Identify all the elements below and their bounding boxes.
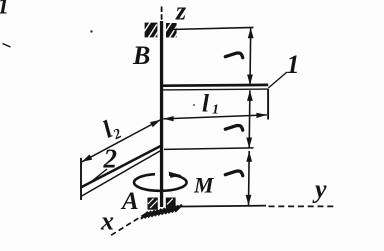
- label l (middle) rotated: [225, 125, 242, 130]
- dimension line l (middle segment): [248, 90, 251, 148]
- moment M arc: [134, 174, 187, 191]
- leader for label 2: [90, 169, 107, 183]
- z axis dashed line: [161, 7, 163, 22]
- speck: [90, 30, 92, 32]
- svg-text:1: 1: [287, 50, 300, 79]
- bar 1 top line: [163, 84, 268, 87]
- svg-text:2: 2: [103, 144, 118, 174]
- svg-text:y: y: [312, 175, 327, 204]
- support B hatch left: [144, 22, 158, 38]
- dimension line l (bottom segment): [248, 151, 251, 205]
- support A right foot: [166, 198, 176, 210]
- svg-text:x: x: [100, 207, 114, 236]
- vertical bar AB: [160, 21, 163, 207]
- bottom line to y axis: [173, 206, 266, 207]
- top extension line: [171, 27, 254, 29]
- junction extension line: [164, 148, 254, 150]
- support A ground hatching: [141, 205, 182, 219]
- bar 1 bottom line: [163, 88, 268, 91]
- support A left foot: [148, 198, 158, 210]
- svg-text:B: B: [132, 41, 150, 70]
- bar 2 upper line: [81, 145, 162, 187]
- dimension line l2: [82, 120, 161, 162]
- stray mark: [3, 44, 11, 48]
- speck: [193, 104, 195, 106]
- moment M arrowhead: [169, 172, 182, 178]
- bar 2 end extension line: [80, 158, 82, 200]
- svg-text:l: l: [202, 91, 209, 118]
- y axis dashed line: [269, 205, 337, 207]
- svg-text:1: 1: [0, 0, 9, 19]
- bar 1 end cap: [267, 89, 269, 120]
- x axis dashed line: [109, 214, 146, 237]
- svg-text:M: M: [193, 173, 215, 198]
- support B hatch right: [166, 22, 178, 38]
- dimension line l (top segment): [249, 28, 252, 85]
- label l2: [99, 113, 124, 146]
- label l (top) rotated: [225, 53, 242, 58]
- svg-text:A: A: [120, 188, 139, 215]
- bar 2 lower line: [81, 151, 161, 197]
- label l (bottom) rotated: [225, 171, 242, 176]
- dimension line l1: [163, 115, 266, 119]
- svg-text:z: z: [175, 0, 187, 26]
- svg-text:1: 1: [212, 103, 219, 118]
- leader for label 1: [268, 72, 287, 88]
